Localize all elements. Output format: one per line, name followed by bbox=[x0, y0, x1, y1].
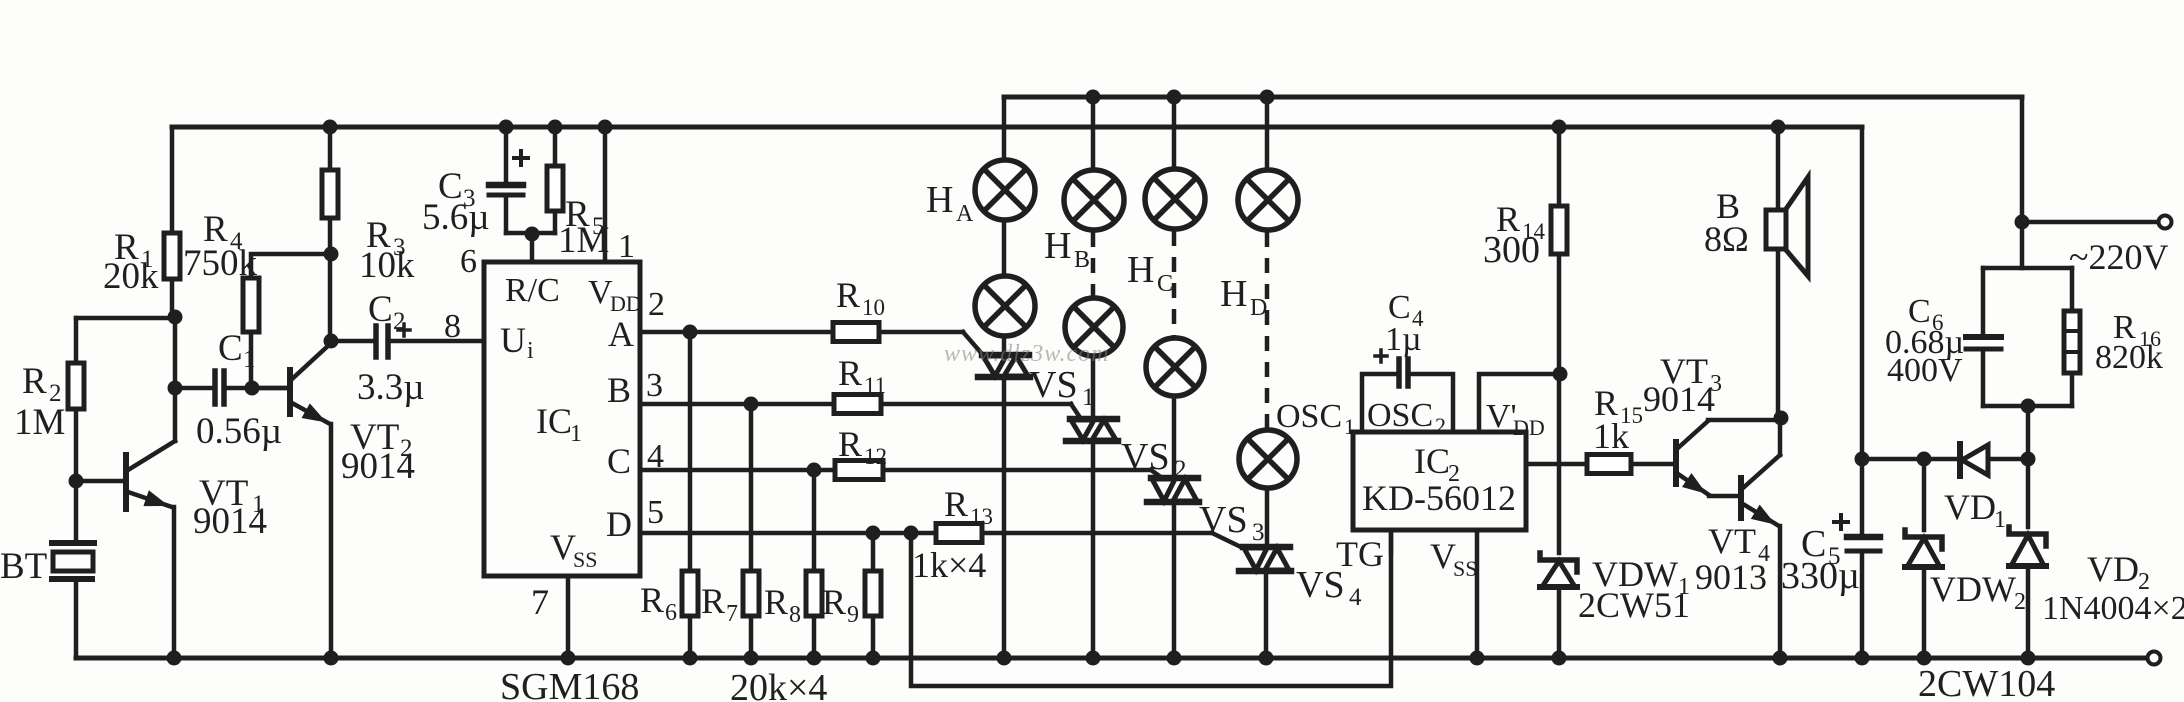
wire VT2 emitter to ground bbox=[324, 424, 339, 666]
svg-text:3.3µ: 3.3µ bbox=[357, 367, 425, 408]
label H_B bbox=[1044, 225, 1090, 273]
svg-text:VD: VD bbox=[1944, 487, 1996, 527]
wire gate VS2 bbox=[1071, 404, 1081, 419]
wire chain A to VS1 bbox=[1002, 336, 1007, 355]
svg-text:5.6µ: 5.6µ bbox=[422, 197, 490, 238]
resistor R1 bbox=[103, 227, 180, 297]
wire network to VD line bbox=[2026, 406, 2031, 459]
capacitor C6 bbox=[1885, 293, 2001, 389]
svg-text:D: D bbox=[1250, 295, 1267, 321]
wire C3 bottom bbox=[504, 197, 509, 233]
wire chain C to VS3 bbox=[1172, 396, 1177, 478]
svg-text:9: 9 bbox=[847, 602, 859, 628]
wire R15 to VT3 base bbox=[1631, 462, 1676, 467]
op-amp U2 IC2 KD-56012 box bbox=[1353, 432, 1526, 530]
wire VDW2a top bbox=[1922, 459, 1927, 530]
svg-text:1k×4: 1k×4 bbox=[912, 545, 986, 585]
wire output B line bbox=[640, 397, 1071, 412]
wire VT3 emitter to VT4 base bbox=[1709, 494, 1739, 499]
wire chain B top bbox=[1086, 90, 1101, 171]
resistor R14 bbox=[1483, 199, 1567, 271]
svg-text:3: 3 bbox=[1252, 519, 1265, 546]
resistor R4 bbox=[183, 209, 259, 332]
wire mains drop from upper rail bbox=[2015, 97, 2030, 268]
svg-text:7: 7 bbox=[726, 601, 738, 627]
svg-text:A: A bbox=[608, 314, 634, 354]
svg-text:DD: DD bbox=[610, 291, 642, 316]
wire R15 line bbox=[1526, 462, 1587, 467]
wire R14 top bbox=[1552, 120, 1567, 207]
label 2CW104 bbox=[1918, 663, 2055, 702]
wire R16 top bbox=[2070, 268, 2075, 311]
svg-text:7: 7 bbox=[531, 582, 549, 622]
svg-text:R: R bbox=[944, 484, 968, 524]
wire R3 top bbox=[323, 120, 338, 171]
label VD2 1N4004x2 bbox=[2042, 549, 2184, 627]
resistor R13 bbox=[912, 484, 993, 585]
pin number 8 bbox=[444, 308, 461, 345]
svg-text:3: 3 bbox=[646, 367, 663, 404]
wire BT bottom bbox=[74, 581, 79, 658]
wire C2 left bbox=[331, 339, 374, 344]
resistor R11 bbox=[834, 353, 886, 414]
svg-text:9013: 9013 bbox=[1695, 557, 1767, 597]
wire R6 top bbox=[688, 332, 693, 571]
label OSC2 bbox=[1367, 397, 1446, 438]
lamp H_C1 bbox=[1145, 169, 1205, 229]
wire gate VS4 bbox=[1212, 533, 1243, 548]
wire BT top bbox=[74, 481, 79, 541]
svg-text:C: C bbox=[1157, 271, 1173, 297]
svg-text:C: C bbox=[607, 441, 631, 481]
wire VDW2a to ground bbox=[1917, 567, 1932, 666]
svg-text:~220V: ~220V bbox=[2069, 237, 2168, 277]
svg-text:BT: BT bbox=[0, 546, 47, 587]
wire chain B dashed bbox=[1091, 232, 1096, 297]
label VDW2 bbox=[1930, 569, 2026, 615]
svg-text:13: 13 bbox=[970, 504, 993, 529]
svg-text:2: 2 bbox=[2014, 589, 2026, 615]
svg-text:2CW104: 2CW104 bbox=[1918, 663, 2055, 702]
wire gate VS3 bbox=[1151, 470, 1162, 478]
wire VS3 to ground bbox=[1167, 502, 1182, 666]
label H_C bbox=[1127, 249, 1173, 297]
zener diode VDW2a bbox=[1905, 452, 1942, 568]
wire R1 bottom to node bbox=[170, 279, 175, 317]
wire chain B to VS2 bbox=[1091, 356, 1096, 419]
svg-text:R: R bbox=[701, 581, 725, 621]
svg-text:330µ: 330µ bbox=[1781, 555, 1860, 597]
wire C6 top bbox=[1981, 268, 1986, 334]
capacitor C4 bbox=[1375, 289, 1424, 386]
svg-text:1: 1 bbox=[570, 421, 582, 447]
svg-text:VT: VT bbox=[1708, 521, 1756, 561]
wire speaker bottom bbox=[1776, 249, 1781, 418]
svg-text:D: D bbox=[606, 504, 632, 544]
svg-text:750k: 750k bbox=[183, 243, 258, 284]
wire mains terminal bbox=[2022, 216, 2172, 229]
label VSS bbox=[1430, 536, 1477, 581]
wire VDW1 to ground bbox=[1552, 587, 1567, 666]
wire VS2 to ground bbox=[1086, 441, 1101, 666]
node pin 6 R/C bbox=[506, 227, 555, 263]
svg-text:IC: IC bbox=[1414, 441, 1450, 481]
svg-text:1: 1 bbox=[1994, 507, 2006, 533]
svg-text:A: A bbox=[956, 201, 974, 227]
lamp H_B2 bbox=[1065, 298, 1123, 356]
wire R9 bottom bbox=[866, 616, 881, 666]
pin number 3 bbox=[646, 367, 663, 404]
resistor R6 bbox=[640, 571, 698, 626]
wire OSC2 pin bbox=[1410, 374, 1453, 432]
svg-text:B: B bbox=[607, 370, 631, 410]
resistor R3 bbox=[322, 170, 415, 286]
op-amp U1 IC1 SGM168 box bbox=[484, 262, 642, 576]
svg-text:KD-56012: KD-56012 bbox=[1362, 478, 1516, 518]
node VT2 collector / C2 bbox=[324, 334, 339, 349]
wire chain A top bbox=[1002, 97, 1007, 160]
wire VS4 to ground bbox=[1259, 571, 1274, 666]
resistor R8 bbox=[764, 571, 822, 628]
svg-text:i: i bbox=[527, 338, 534, 364]
svg-text:5: 5 bbox=[647, 494, 664, 531]
wire VSS pin to ground bbox=[1470, 530, 1485, 666]
svg-text:C: C bbox=[368, 289, 393, 330]
wire VDW2b to ground bbox=[2021, 566, 2036, 666]
svg-text:H: H bbox=[1044, 225, 1071, 267]
resistor R10 bbox=[833, 275, 885, 342]
svg-text:1N4004×2: 1N4004×2 bbox=[2042, 590, 2184, 627]
svg-text:DD: DD bbox=[1513, 415, 1545, 440]
wire V'DD pin bbox=[1479, 367, 1568, 433]
wire OSC1 pin bbox=[1362, 374, 1397, 432]
pin number 1 bbox=[618, 228, 635, 265]
wire R7 bottom bbox=[744, 616, 759, 666]
transistor VT1 bbox=[76, 441, 267, 542]
wire C1 right bbox=[226, 381, 288, 396]
wire chain C dashed bbox=[1172, 231, 1177, 337]
wire V'DD node to VDW1 bbox=[1557, 374, 1562, 553]
wire R5 top bbox=[548, 120, 563, 167]
wire TG pin bbox=[1389, 530, 1394, 553]
wire chain D dashed bbox=[1265, 232, 1270, 429]
wire VDW2b top bbox=[2026, 459, 2031, 527]
wire VS1 to ground bbox=[997, 377, 1012, 666]
wire ground terminal bbox=[2148, 652, 2161, 665]
wire lamp common rail (upper top rail) bbox=[1004, 95, 2022, 100]
wire C6 bottom bbox=[1981, 351, 1986, 406]
resistor R5 bbox=[547, 166, 609, 261]
wire R3 bottom bbox=[324, 218, 339, 262]
label 20k×4 bbox=[730, 667, 827, 702]
node C5 top / VD1 line bbox=[1855, 452, 1870, 467]
svg-text:VS: VS bbox=[1121, 436, 1170, 478]
thyristor VS4 bbox=[1239, 547, 1362, 611]
wire VT3 collector bbox=[1708, 411, 1789, 426]
svg-text:2: 2 bbox=[648, 286, 665, 323]
wire output D line bbox=[640, 526, 1212, 541]
wire R3 node to VT2 collector bbox=[328, 254, 333, 341]
wire C2 right to pin 8 bbox=[390, 339, 484, 344]
wire C6R16 top bbox=[1983, 266, 2072, 271]
node R1/R2/VT1-collector bbox=[76, 310, 183, 325]
wire R8 top bbox=[812, 470, 817, 571]
svg-text:11: 11 bbox=[864, 373, 886, 398]
lamp H_B1 bbox=[1064, 170, 1124, 230]
watermark bbox=[944, 341, 1109, 367]
svg-text:12: 12 bbox=[864, 444, 887, 469]
wire output C line bbox=[640, 463, 1151, 478]
resistor R15 bbox=[1587, 383, 1643, 474]
wire C5 to ground bbox=[1855, 551, 1870, 666]
svg-text:R: R bbox=[838, 353, 862, 393]
label H_A bbox=[926, 179, 974, 227]
svg-text:1: 1 bbox=[618, 228, 635, 265]
svg-text:20k: 20k bbox=[103, 256, 159, 297]
pin number 7 bbox=[531, 582, 549, 622]
svg-text:H: H bbox=[926, 179, 953, 221]
svg-text:8: 8 bbox=[789, 602, 801, 628]
wire right supply drop bbox=[1860, 127, 1865, 535]
svg-text:6: 6 bbox=[460, 243, 477, 280]
resistor R2 bbox=[14, 361, 84, 443]
wire chain C top bbox=[1167, 90, 1182, 170]
svg-text:10k: 10k bbox=[359, 245, 415, 286]
wire R14 bottom to V'DD node bbox=[1557, 254, 1562, 374]
capacitor C5 bbox=[1781, 515, 1880, 597]
wire V+ supply rail (lower top rail) bbox=[172, 125, 1862, 130]
svg-text:U: U bbox=[500, 320, 526, 360]
svg-text:1k: 1k bbox=[1593, 416, 1629, 456]
wire VT4 emitter to ground bbox=[1773, 526, 1788, 666]
svg-text:B: B bbox=[1074, 247, 1090, 273]
svg-text:SS: SS bbox=[573, 547, 597, 572]
lamp H_A1 bbox=[975, 160, 1035, 220]
resistor R12 bbox=[835, 424, 887, 480]
wire C3 top bbox=[499, 120, 514, 184]
pin number 4 bbox=[647, 438, 664, 475]
node VT1 base / BT bbox=[69, 474, 84, 489]
lamp H_D1 bbox=[1238, 170, 1298, 230]
svg-text:1M: 1M bbox=[558, 220, 609, 261]
svg-text:R: R bbox=[640, 580, 664, 620]
svg-text:400V: 400V bbox=[1887, 352, 1963, 389]
transistor VT4 bbox=[1695, 455, 1780, 597]
wire R5 bottom bbox=[553, 211, 558, 233]
wire VT1 collector bbox=[173, 317, 178, 441]
svg-text:20k×4: 20k×4 bbox=[730, 667, 827, 702]
capacitor C2 bbox=[357, 289, 425, 408]
capacitor C1 bbox=[196, 328, 282, 452]
svg-text:9014: 9014 bbox=[193, 501, 267, 542]
svg-text:820k: 820k bbox=[2095, 339, 2163, 376]
label V'DD bbox=[1486, 398, 1545, 440]
svg-text:R: R bbox=[836, 275, 860, 315]
label H_D bbox=[1220, 273, 1267, 321]
lamp H_D2 bbox=[1239, 430, 1297, 488]
microphone BT bbox=[0, 543, 94, 587]
svg-text:C: C bbox=[218, 328, 243, 369]
resistor R9 bbox=[822, 571, 881, 628]
thyristor VS1 bbox=[978, 355, 1095, 411]
svg-text:300: 300 bbox=[1483, 229, 1540, 271]
wire R9 top bbox=[871, 533, 876, 571]
wire V DD pin 1 bbox=[598, 120, 613, 263]
svg-text:6: 6 bbox=[665, 600, 677, 626]
lamp H_C2 bbox=[1146, 338, 1204, 396]
svg-text:SGM168: SGM168 bbox=[500, 666, 639, 702]
wire C6R16 bottom bbox=[1983, 399, 2072, 414]
svg-text:IC: IC bbox=[536, 401, 572, 441]
svg-text:SS: SS bbox=[1453, 556, 1477, 581]
svg-text:9014: 9014 bbox=[1643, 379, 1715, 419]
svg-text:2CW51: 2CW51 bbox=[1578, 585, 1690, 625]
wire R16 bottom bbox=[2070, 373, 2075, 406]
svg-text:4: 4 bbox=[1349, 584, 1362, 611]
wire VT1 emitter to ground bbox=[167, 507, 182, 666]
svg-text:OSC: OSC bbox=[1367, 397, 1433, 434]
svg-text:OSC: OSC bbox=[1276, 398, 1342, 435]
wire R4 bottom bbox=[249, 332, 254, 386]
svg-text:0.56µ: 0.56µ bbox=[196, 411, 282, 452]
svg-text:8: 8 bbox=[444, 308, 461, 345]
capacitor C3 bbox=[422, 151, 528, 238]
wire chain D top bbox=[1260, 90, 1275, 171]
svg-text:10: 10 bbox=[862, 295, 885, 320]
wire R2 bottom bbox=[74, 409, 79, 481]
svg-text:R/C: R/C bbox=[505, 272, 560, 309]
wire R6 bottom bbox=[683, 616, 698, 666]
svg-text:VD: VD bbox=[2087, 549, 2139, 589]
label TG bbox=[1336, 534, 1384, 574]
svg-text:H: H bbox=[1220, 273, 1247, 315]
pin number 2 bbox=[648, 286, 665, 323]
wire R7 top bbox=[749, 404, 754, 571]
lamp H_A2 bbox=[975, 276, 1035, 336]
wire speaker top bbox=[1771, 120, 1786, 211]
wire R2 top bbox=[74, 318, 79, 363]
label OSC1 bbox=[1276, 398, 1355, 439]
diode VD1 bbox=[1944, 444, 2006, 533]
svg-text:8Ω: 8Ω bbox=[1704, 219, 1749, 259]
svg-text:R: R bbox=[838, 424, 862, 464]
svg-text:VS: VS bbox=[1199, 499, 1248, 541]
wire C1 left bbox=[168, 381, 214, 396]
svg-text:R: R bbox=[822, 582, 846, 622]
wire VT4 collector bbox=[1778, 418, 1783, 455]
thyristor VS2 bbox=[1066, 419, 1187, 483]
wire ground rail (bottom) bbox=[76, 656, 2146, 661]
svg-text:1M: 1M bbox=[14, 402, 65, 443]
wire R4 top bbox=[251, 254, 331, 278]
resistor R16 bbox=[2064, 309, 2163, 376]
zener diode VDW1 bbox=[1540, 553, 1690, 625]
pin number 6 bbox=[460, 243, 477, 280]
svg-text:1µ: 1µ bbox=[1385, 321, 1422, 358]
pin number 5 bbox=[647, 494, 664, 531]
svg-text:TG: TG bbox=[1336, 534, 1384, 574]
label SGM168 bbox=[500, 666, 639, 702]
svg-text:R: R bbox=[764, 582, 788, 622]
svg-text:H: H bbox=[1127, 249, 1154, 291]
wire R1 top bbox=[170, 127, 175, 233]
wire chain D to VS4 bbox=[1265, 488, 1270, 547]
transistor VT3 bbox=[1643, 351, 1722, 495]
wire output A line bbox=[640, 325, 963, 340]
zener diode VDW2b bbox=[2009, 452, 2046, 567]
wire pin 7 V SS to ground bbox=[561, 576, 576, 666]
wire chain A mid bbox=[1002, 220, 1007, 276]
thyristor VS3 bbox=[1147, 478, 1265, 546]
svg-text:R: R bbox=[22, 361, 47, 402]
svg-text:9014: 9014 bbox=[341, 446, 415, 487]
transistor VT2 bbox=[252, 344, 415, 487]
label ~220V bbox=[2069, 237, 2168, 277]
wire R8 bottom bbox=[807, 616, 822, 666]
wire TG feedback loop bbox=[911, 530, 1391, 686]
resistor R7 bbox=[701, 571, 759, 627]
wire gate VS1 bbox=[963, 332, 983, 355]
speaker B bbox=[1704, 177, 1808, 276]
svg-text:www.dlz3w.com: www.dlz3w.com bbox=[944, 341, 1109, 367]
wire VD1 line bbox=[1862, 457, 2028, 462]
svg-text:VS: VS bbox=[1029, 364, 1078, 406]
svg-text:VDW: VDW bbox=[1930, 569, 2016, 609]
